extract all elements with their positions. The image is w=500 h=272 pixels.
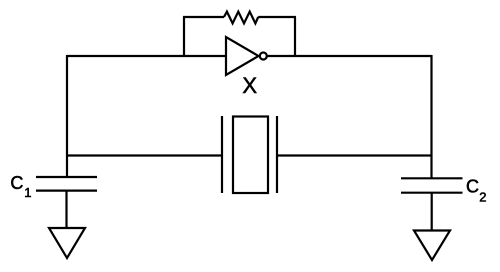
capacitor C1 top plate	[36, 176, 97, 178]
wire: inverter output bubble to right rail	[267, 55, 432, 57]
wire: feedback loop top left segment	[183, 16, 224, 18]
svg-text:2: 2	[479, 189, 486, 204]
wire: right rail vertical	[430, 55, 432, 178]
capacitor C2 bottom plate	[401, 192, 463, 194]
wire: feedback loop top right segment	[258, 16, 296, 18]
wire: feedback loop left vertical	[183, 17, 185, 56]
wire: main horizontal net, left rail top to inverter input	[67, 55, 226, 57]
wire: middle horizontal left (node to crystal)	[67, 154, 222, 156]
inverter X output bubble	[260, 53, 267, 60]
ground (left)	[49, 228, 85, 258]
svg-text:X: X	[242, 73, 257, 98]
crystal Y1 right plate	[276, 116, 278, 193]
inverter X (triangle)	[226, 37, 259, 75]
crystal Y1 body rectangle	[233, 117, 268, 194]
crystal Y1 left plate	[221, 116, 223, 193]
wire: left rail vertical	[66, 55, 68, 177]
svg-text:C: C	[466, 177, 479, 197]
wire: C2 to ground	[431, 193, 433, 231]
capacitor C2 top plate	[401, 177, 463, 179]
ground (right)	[414, 231, 450, 261]
wire: C1 to ground	[65, 191, 67, 229]
svg-text:C: C	[10, 173, 23, 193]
wire: middle horizontal right (crystal to right rail)	[277, 154, 432, 156]
resistor R1 (feedback zigzag)	[224, 12, 258, 24]
svg-text:1: 1	[24, 185, 31, 200]
wire: feedback loop right vertical	[294, 17, 296, 56]
capacitor C1 bottom plate	[36, 190, 97, 192]
